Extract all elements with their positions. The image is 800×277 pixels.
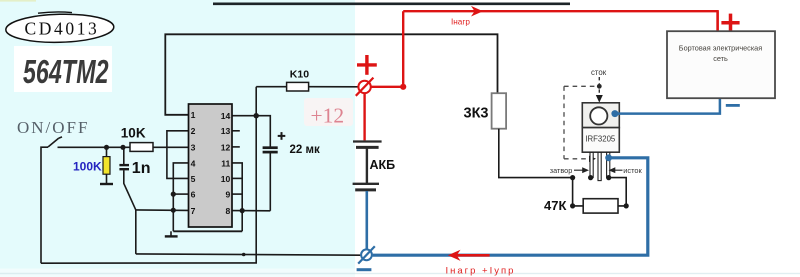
legs gate drain source — [590, 152, 610, 180]
label +12 — [304, 98, 353, 126]
svg-text:564ТМ2: 564ТМ2 — [23, 54, 109, 91]
wire ground bus horizontal-1 to bottom slash — [136, 254, 361, 255]
resistor 10K — [121, 126, 153, 152]
wire red into network box top — [716, 11, 718, 31]
svg-text:K10: K10 — [290, 69, 309, 81]
svg-text:10: 10 — [221, 174, 231, 184]
pin numbers left — [191, 110, 196, 216]
dashed arrow from box corner to gate leg — [564, 156, 596, 162]
svg-text:11: 11 — [221, 158, 230, 168]
arrow Inagr+Iupr bottom — [448, 250, 490, 261]
svg-text:14: 14 — [221, 111, 231, 121]
svg-text:Iнагр: Iнагр — [451, 17, 470, 26]
ground tick under chip — [165, 231, 178, 236]
wire U under chip — [173, 230, 242, 232]
svg-text:+12: +12 — [311, 103, 345, 127]
svg-text:8: 8 — [226, 206, 231, 216]
wire VDD vertical K10 down to bottom return — [41, 87, 256, 264]
node 100K junction — [104, 145, 109, 150]
wire red riser — [402, 11, 404, 87]
faint bottom divider line — [0, 273, 800, 274]
wire 100K top — [106, 147, 108, 157]
wire blue bottom rail and riser to source — [373, 158, 648, 255]
svg-text:22 мк: 22 мк — [290, 144, 320, 156]
resistor 3K3 — [464, 93, 507, 129]
bottom pale fade — [0, 269, 355, 277]
block: on-board network box — [667, 31, 775, 98]
svg-text:сеть: сеть — [713, 54, 728, 63]
svg-text:CD4013: CD4013 — [25, 18, 100, 38]
label zatvor + arrow — [550, 166, 589, 175]
wire pin2 to pin5 — [167, 131, 189, 179]
wire cap bottom to pin8 row — [269, 153, 271, 211]
switch S1 — [41, 137, 62, 263]
node slash bottom (minus) — [358, 246, 375, 263]
wire 47K right branch — [609, 178, 627, 206]
node gate bottom — [588, 175, 593, 180]
wire 100K bottom + ground tick — [100, 174, 113, 184]
svg-text:1n: 1n — [132, 160, 151, 177]
wire pin7 row — [136, 209, 189, 212]
plus symbol top battery — [357, 55, 377, 75]
node blue source tap — [605, 154, 612, 161]
svg-text:4: 4 — [191, 158, 196, 168]
wire 47K left branch — [573, 178, 584, 206]
svg-text:2: 2 — [191, 126, 196, 136]
wire 1n bottom diagonal to pin7 node — [124, 170, 136, 210]
svg-text:3К3: 3К3 — [464, 106, 489, 122]
wire pin8 row to cap bottom corner — [232, 210, 270, 212]
wire red down to battery — [363, 93, 365, 140]
svg-text:7: 7 — [191, 206, 196, 216]
wire red plus node to corner — [371, 86, 403, 88]
capacitor 1n — [119, 160, 150, 177]
background cyan panel — [0, 0, 355, 277]
wire pin13 stub — [232, 130, 240, 132]
top-left yellow sliver — [0, 0, 36, 2]
wire pin9 stub — [232, 193, 242, 195]
label CD4013 ellipse — [5, 12, 114, 44]
wire 3K3 bottom to gate — [499, 129, 573, 178]
label istok + arrow — [609, 166, 643, 175]
svg-text:1: 1 — [191, 110, 196, 120]
node 47K left — [570, 203, 575, 208]
wire pin10 stub — [232, 177, 242, 179]
wire pin1 loop top to 3K3 — [165, 34, 497, 115]
wire blue battery down — [365, 191, 368, 249]
wire bracket pins 11-8 — [232, 163, 242, 231]
wire down from pin7 node — [135, 210, 137, 254]
background white right — [355, 0, 800, 277]
wire pin12 stub — [232, 146, 240, 148]
IC U1 CD4013 body — [189, 104, 233, 227]
label 564TM2 — [14, 46, 112, 92]
svg-text:3: 3 — [191, 142, 196, 152]
node slash top (+ supply) — [356, 78, 374, 96]
capacitor C 22mk — [263, 132, 320, 156]
wire pin14 to VDD rail — [232, 115, 256, 117]
wire 10K to pin3 — [153, 146, 189, 148]
wire pin6 stub — [173, 193, 188, 195]
plus symbol at network box — [721, 14, 739, 32]
svg-text:6: 6 — [191, 190, 196, 200]
node pin7 — [171, 208, 176, 213]
node small on bus — [242, 253, 246, 257]
node source bottom — [606, 175, 611, 180]
wire switch to 10K — [58, 146, 131, 148]
node red corner — [400, 84, 406, 90]
wire pin4 bracket down — [173, 163, 188, 231]
svg-text:Iнагр +Iупр: Iнагр +Iупр — [446, 266, 516, 277]
dashed module box (left + top edges) — [564, 86, 595, 159]
svg-text:ON/OFF: ON/OFF — [17, 118, 89, 137]
svg-text:Бортовая электрическая: Бортовая электрическая — [679, 43, 762, 52]
node 47K right — [624, 203, 629, 208]
wire K10 left — [256, 86, 286, 88]
top black line — [213, 2, 570, 5]
minus at network box — [726, 104, 740, 107]
label stok + dashed arrow down — [591, 68, 607, 102]
svg-text:затвор: затвор — [550, 166, 573, 175]
svg-text:47К: 47К — [544, 198, 566, 213]
node pin8 bracket — [240, 208, 245, 213]
wire cap 22mk top branch — [256, 116, 270, 147]
resistor 47K — [544, 198, 618, 213]
wire blue drain to network box — [615, 99, 720, 114]
svg-text:100K: 100K — [73, 160, 102, 174]
battery AKB — [353, 142, 382, 190]
resistor 100K (yellow) — [73, 157, 110, 175]
svg-text:13: 13 — [221, 126, 231, 136]
wire 1n top — [123, 147, 125, 164]
node blue drain tap — [611, 110, 618, 117]
transistor Q1 IRF3205 package — [582, 103, 619, 152]
node 1n junction — [120, 145, 125, 150]
svg-text:IRF3205: IRF3205 — [585, 135, 616, 144]
node pin14 — [254, 113, 259, 118]
node pin6 — [171, 192, 176, 197]
pin numbers right — [221, 111, 231, 216]
resistor K10 — [287, 69, 310, 91]
arrow Inagr top — [471, 6, 483, 17]
svg-text:10K: 10K — [121, 126, 146, 141]
svg-text:5: 5 — [191, 174, 196, 184]
svg-text:исток: исток — [623, 166, 642, 175]
svg-text:12: 12 — [221, 142, 231, 152]
svg-text:сток: сток — [591, 68, 607, 77]
node gate row corner — [570, 175, 575, 180]
svg-text:9: 9 — [226, 190, 231, 200]
minus symbol bottom — [357, 268, 372, 271]
wire K10 right to plus node — [309, 86, 358, 88]
svg-text:АКБ: АКБ — [370, 158, 396, 172]
wire red top rail — [403, 11, 717, 31]
